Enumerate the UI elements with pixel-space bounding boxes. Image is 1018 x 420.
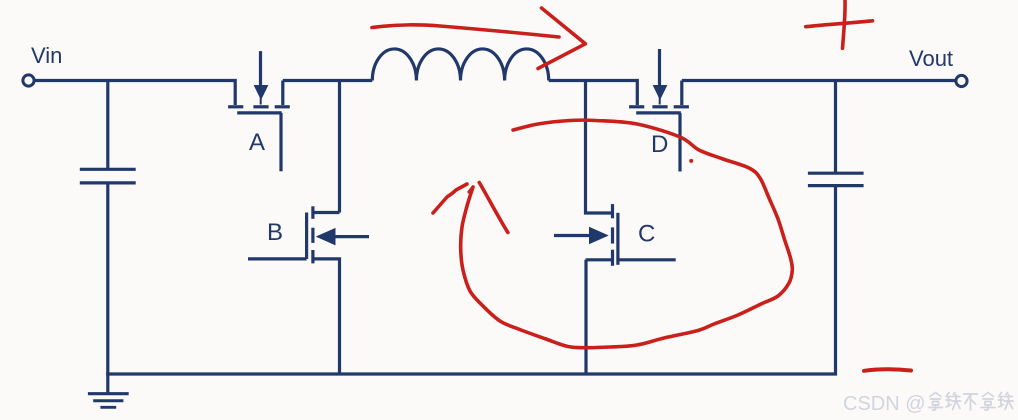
- watermark char na1: [929, 393, 943, 411]
- annotation loop end hook: [469, 187, 473, 192]
- watermark char na2: [981, 393, 995, 411]
- wire D to Vout: [682, 79, 956, 82]
- watermark char bu: [964, 394, 978, 410]
- annotation minus sign: [864, 369, 911, 370]
- transistor D: [629, 49, 689, 172]
- wire node L-D down to Q-C drain: [586, 81, 612, 214]
- svg-text:Vout: Vout: [909, 46, 953, 71]
- wire output-cap top lead: [834, 81, 837, 174]
- transistor B: [248, 206, 369, 374]
- ground: [88, 374, 129, 407]
- svg-text:A: A: [249, 129, 265, 156]
- annotation dot: [689, 159, 693, 163]
- capacitor Cin: [80, 169, 136, 374]
- wire inductor to Q-D: [549, 81, 638, 106]
- svg-text:D: D: [651, 131, 668, 158]
- transistor C: [554, 204, 676, 374]
- watermark char tie1: [946, 393, 961, 410]
- annotation current loop: [461, 120, 793, 348]
- wire node A-B down to Q-B drain: [338, 81, 341, 213]
- wire Vin to Q-A drain: [35, 81, 236, 106]
- annotation arrow over inductor: [372, 8, 585, 69]
- wire ground rail: [106, 186, 835, 374]
- Vin terminal: [23, 75, 34, 86]
- wire input-cap top lead: [106, 81, 109, 170]
- inductor L1: [372, 49, 548, 81]
- svg-text:Vin: Vin: [31, 43, 62, 68]
- svg-text:CSDN @: CSDN @: [843, 393, 926, 415]
- wire A to inductor: [283, 79, 373, 82]
- watermark CSDN: [843, 393, 1013, 416]
- svg-text:C: C: [638, 221, 655, 248]
- annotation loop arrowhead: [433, 183, 508, 233]
- Vout terminal: [956, 75, 967, 86]
- annotation plus sign: [806, 0, 873, 48]
- watermark char tie2: [999, 393, 1014, 410]
- svg-text:B: B: [267, 219, 283, 246]
- transistor A: [228, 51, 290, 171]
- capacitor Cout: [808, 173, 864, 185]
